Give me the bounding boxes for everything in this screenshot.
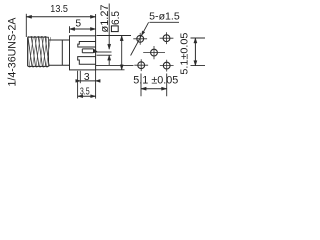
flange hole center: [143, 46, 165, 59]
svg-text:3: 3: [84, 72, 90, 83]
flange hole bottom-right: [160, 60, 174, 72]
cylinder divider line: [61, 40, 63, 65]
extension line bottom row: [96, 64, 134, 66]
square 6.5 dimension line: [120, 36, 123, 70]
dia 1.27 dimension arrows: [97, 4, 112, 66]
pin tail line: [97, 51, 112, 53]
flange hole top-left: [133, 33, 147, 45]
body internal step upper: [78, 42, 96, 48]
flange hole bottom-left: [134, 59, 148, 71]
plain cylinder: [49, 40, 70, 65]
thread zigzag hatching: [28, 37, 49, 66]
body square section: [70, 36, 96, 70]
extension line body bottom: [96, 69, 125, 71]
svg-text:ø1.27: ø1.27: [99, 4, 111, 32]
thread crest bumps: [28, 37, 49, 67]
flange hole top-right: [160, 32, 174, 44]
svg-text:5.1±0.05: 5.1±0.05: [179, 32, 191, 74]
bottom dimension 5.1: [141, 74, 167, 97]
svg-text:1/4-36UNS-2A: 1/4-36UNS-2A: [6, 17, 18, 87]
svg-text:5-ø1.5: 5-ø1.5: [149, 11, 180, 22]
svg-text:13.5: 13.5: [50, 4, 68, 15]
extension line top row: [97, 35, 132, 37]
leader 5-dia1.5: [131, 22, 179, 55]
extension line right of body (shared by dims): [95, 14, 97, 99]
right dimension 5.1: [191, 38, 206, 66]
dimension 3.5: [78, 71, 96, 99]
dimension 3: [76, 71, 101, 83]
svg-text:3.5: 3.5: [80, 86, 90, 97]
svg-text:5.1 ±0.05: 5.1 ±0.05: [133, 75, 178, 87]
center pin: [82, 49, 93, 53]
body internal step lower: [78, 57, 96, 65]
svg-text:6.5: 6.5: [110, 11, 122, 25]
svg-text:5: 5: [75, 19, 81, 30]
thread barrel 1/4-36UNS-2A: [28, 37, 49, 66]
dimension 13.5: [26, 14, 95, 37]
dimension 5 (body length): [70, 26, 96, 33]
square symbol of 6.5 label: [111, 26, 118, 32]
